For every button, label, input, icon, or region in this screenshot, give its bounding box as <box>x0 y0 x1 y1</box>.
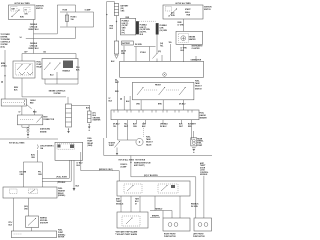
svg-text:(16) GRN: (16) GRN <box>160 30 168 32</box>
svg-text:ANTI-THEFT): ANTI-THEFT) <box>134 164 145 167</box>
svg-text:DK GRN: DK GRN <box>191 206 198 208</box>
labels right pumps <box>191 204 199 209</box>
svg-text:BATTERY: BATTERY <box>122 42 131 45</box>
svg-text:DK GRN: DK GRN <box>135 44 142 46</box>
label selector valve <box>146 137 154 147</box>
wire engine controls branch <box>22 96 66 98</box>
fuel gauge (instrument cluster) <box>176 31 203 44</box>
vertical divider center <box>106 2 108 139</box>
connector strip below engine controls wire <box>66 104 72 133</box>
svg-text:GENERATOR: GENERATOR <box>191 58 202 61</box>
wire ignition to gauge <box>182 19 184 31</box>
svg-text:ENGINE: ENGINE <box>40 132 47 134</box>
labels below O1 <box>116 198 139 206</box>
svg-text:SYSTEM: SYSTEM <box>54 93 62 95</box>
wires below tank select relay <box>45 67 80 84</box>
footnote anti-theft <box>115 231 138 237</box>
label sender strip <box>200 113 208 120</box>
body ground G1 connector strip <box>88 111 92 131</box>
ignition switch S1 (top left box) <box>9 5 36 20</box>
fusible link bar 1 <box>136 21 139 34</box>
relay box O2 <box>117 212 148 228</box>
feed wire from divider top <box>107 2 115 4</box>
oil pressure switch (near divider) <box>109 141 120 155</box>
svg-text:LT BLU: LT BLU <box>1 66 8 68</box>
label gasoline <box>40 128 50 134</box>
generator box <box>120 61 204 77</box>
svg-text:PUMP MOTOR: PUMP MOTOR <box>164 236 176 238</box>
svg-text:(4) DK: (4) DK <box>121 50 127 53</box>
wire drop to fuel pump relay <box>21 54 23 62</box>
svg-text:PPL: PPL <box>122 32 125 34</box>
svg-text:TAN/: TAN/ <box>135 198 139 201</box>
fuel pump relay K1 <box>13 61 35 78</box>
wires selector to sender bus <box>136 100 186 110</box>
svg-text:TANK: TANK <box>146 138 151 141</box>
test connector <box>17 115 42 125</box>
svg-text:LINK (14): LINK (14) <box>30 26 38 29</box>
fuel tank selector valve <box>136 122 144 146</box>
wires below sender strip <box>118 120 192 140</box>
fusible link legend box <box>120 17 135 35</box>
svg-text:MODULE: MODULE <box>116 204 124 206</box>
svg-text:(GAS): (GAS) <box>87 144 92 147</box>
svg-text:RED/BLK: RED/BLK <box>63 71 71 73</box>
tank select relay K2 <box>42 59 78 80</box>
divider line bottom left <box>0 138 58 140</box>
svg-text:ORG: ORG <box>121 10 126 12</box>
svg-text:ORG: ORG <box>133 126 138 128</box>
svg-text:ORG: ORG <box>136 104 141 106</box>
svg-text:ORG: ORG <box>31 157 36 159</box>
svg-text:YEL: YEL <box>113 126 116 128</box>
svg-text:HEATER: HEATER <box>189 38 197 41</box>
wires into generator box <box>124 44 196 61</box>
svg-text:DK BLU: DK BLU <box>179 104 186 106</box>
svg-text:IGN A: IGN A <box>185 11 190 14</box>
svg-text:TANK: TANK <box>195 82 200 85</box>
label fusible link 2 <box>29 43 40 50</box>
svg-text:YEL: YEL <box>169 42 172 44</box>
svg-text:ORG: ORG <box>24 209 29 211</box>
wires below generator box <box>118 80 131 110</box>
label fuel pump relay <box>37 62 43 69</box>
svg-text:( PPL/BLU: ( PPL/BLU <box>57 182 66 184</box>
label inertia callout <box>134 162 151 168</box>
inline fuse <box>111 41 119 63</box>
label relay N <box>87 138 93 147</box>
svg-text:CONNECTOR: CONNECTOR <box>43 119 55 121</box>
wire M down to inertia switch <box>24 198 29 216</box>
svg-text:** W/O ANTI THEFT ALARM: ** W/O ANTI THEFT ALARM <box>115 233 137 236</box>
svg-text:ANTI: ANTI <box>116 198 120 201</box>
svg-text:PUMP MOTOR: PUMP MOTOR <box>193 236 205 238</box>
fuse panel bus <box>60 12 94 27</box>
svg-text:57 BLK: 57 BLK <box>140 52 147 54</box>
label to power distribution <box>1 34 11 48</box>
svg-text:ORG: ORG <box>38 174 43 176</box>
svg-text:INERTIA: INERTIA <box>40 217 48 220</box>
fuel pump relay box N (bottom) <box>55 142 83 160</box>
labels split wires <box>20 172 43 177</box>
svg-text:RED/LT BLU: RED/LT BLU <box>29 48 40 50</box>
ground connector below <box>22 125 29 138</box>
wire from ignition switch down <box>33 20 35 54</box>
svg-text:MOTOR: MOTOR <box>58 237 65 238</box>
svg-text:SENDER: SENDER <box>200 118 208 120</box>
fusible link bar 2 <box>156 23 159 34</box>
svg-text:LINK (14): LINK (14) <box>30 45 38 48</box>
svg-text:SWITCH: SWITCH <box>195 88 202 90</box>
wire from fusible bar down <box>153 35 164 63</box>
svg-text:(21): (21) <box>158 51 161 53</box>
wire with arrow (to frame) <box>73 160 80 191</box>
battery feed connector strip <box>114 4 118 42</box>
label left front pump <box>193 234 205 239</box>
svg-text:DK BLU: DK BLU <box>160 126 167 128</box>
fuel tank selector switch <box>132 82 194 99</box>
svg-text:20 AMP: 20 AMP <box>120 166 127 169</box>
svg-text:57: 57 <box>135 204 137 206</box>
label fuel pump box <box>58 230 66 239</box>
label rear fuel pump <box>197 138 203 147</box>
svg-text:10 AMP: 10 AMP <box>85 9 92 12</box>
svg-text:FRONT: FRONT <box>155 84 162 86</box>
dashed link wire <box>139 20 156 22</box>
fuse panel feed wires <box>20 5 76 39</box>
right front pump motor <box>163 218 190 231</box>
svg-text:(97) LT BLU/ORG: (97) LT BLU/ORG <box>144 175 158 177</box>
labels below sender strip <box>113 124 197 129</box>
label box M <box>58 188 66 197</box>
svg-text:HOT AT ALL TIMES: HOT AT ALL TIMES <box>175 2 191 5</box>
svg-text:162: 162 <box>43 52 46 54</box>
label fusible link <box>29 24 40 31</box>
wires O1 to O2 <box>121 196 140 212</box>
wire breaker down <box>31 150 37 162</box>
svg-text:( PULL IN SW: ( PULL IN SW <box>56 176 67 178</box>
label ground <box>93 113 102 122</box>
svg-text:VALVE: VALVE <box>146 143 152 146</box>
svg-text:14: 14 <box>20 36 22 39</box>
svg-text:(DIESEL): (DIESEL) <box>58 195 66 197</box>
svg-text:HOT AT ALL TIMES: HOT AT ALL TIMES <box>9 142 25 145</box>
label inertia switch <box>40 217 48 225</box>
svg-text:YEL: YEL <box>160 46 163 48</box>
svg-text:TAN/BLU: TAN/BLU <box>155 208 163 211</box>
svg-text:STARTER: STARTER <box>93 119 102 122</box>
svg-text:ORG: ORG <box>20 174 25 176</box>
wire left to pump box <box>9 198 32 231</box>
fuse F5 <box>63 9 92 27</box>
svg-text:CLUSTER: CLUSTER <box>192 48 201 50</box>
anti-theft module label block <box>200 162 208 176</box>
inertia switch <box>26 216 39 228</box>
label fuse <box>120 164 127 169</box>
ignition switch S2 (top right box) <box>163 5 203 19</box>
fusible link text 2 <box>140 24 151 36</box>
svg-text:START: START <box>185 8 191 11</box>
svg-text:BRN/PPL: BRN/PPL <box>152 216 159 218</box>
wire from module down <box>203 176 205 218</box>
wires below relay N <box>42 152 83 181</box>
svg-text:HOT AT ALL TIMES: HOT AT ALL TIMES <box>14 2 30 5</box>
inline connector C1 <box>1 99 31 109</box>
svg-text:(14): (14) <box>160 42 163 45</box>
svg-text:MODULE: MODULE <box>200 174 208 176</box>
labels above generator box <box>121 41 172 55</box>
wire relay to engine controls <box>21 78 23 97</box>
svg-text:RED/LT BLU: RED/LT BLU <box>29 29 40 31</box>
label circuit breaker <box>38 145 54 151</box>
glow plug controller box M <box>3 187 57 198</box>
tan blu jumper <box>150 196 180 218</box>
wire down from fuse <box>130 156 196 219</box>
svg-text:HOT AT ALL TIMES HOT IN RUN: HOT AT ALL TIMES HOT IN RUN <box>119 159 146 162</box>
rear fuel pump <box>191 131 197 153</box>
wire bus to tank select relay <box>22 53 76 55</box>
wires into test connector <box>19 106 38 115</box>
svg-text:SHUTOFF: SHUTOFF <box>40 223 48 225</box>
svg-text:* WITH ANTI THEFT ALARM: * WITH ANTI THEFT ALARM <box>115 231 138 234</box>
fuel sender connector strip <box>111 110 199 120</box>
wire to body ground <box>72 105 91 111</box>
bronco only wire <box>81 169 119 181</box>
svg-text:THEFT: THEFT <box>109 145 115 147</box>
label battery feed <box>110 4 130 30</box>
label right of bar 2 <box>160 25 168 32</box>
label fuel tank selector switch <box>195 81 203 91</box>
svg-text:GAUGE: GAUGE <box>200 114 207 117</box>
labels left of selector <box>109 80 131 104</box>
wire split <box>23 162 42 187</box>
svg-text:SWITCH: SWITCH <box>36 8 43 10</box>
callout labels <box>56 176 67 184</box>
svg-text:(BRONCO ONLY): (BRONCO ONLY) <box>99 169 113 171</box>
svg-text:(GASOLINE): (GASOLINE) <box>40 128 50 131</box>
left front pump motor <box>194 218 212 231</box>
wire left branch down <box>4 50 6 99</box>
fuel pump relay box O1 <box>117 181 190 196</box>
svg-text:LT GRN: LT GRN <box>178 25 185 27</box>
label right front pump <box>164 234 176 239</box>
wire gauge to sender box <box>182 44 184 62</box>
fuel pump box L <box>11 231 56 238</box>
svg-text:PUMP: PUMP <box>197 145 203 147</box>
svg-text:(4.9L): (4.9L) <box>1 45 6 48</box>
svg-text:57: 57 <box>19 112 21 114</box>
hot feed wire from top section <box>104 138 212 156</box>
svg-text:SWITCH: SWITCH <box>204 9 211 11</box>
